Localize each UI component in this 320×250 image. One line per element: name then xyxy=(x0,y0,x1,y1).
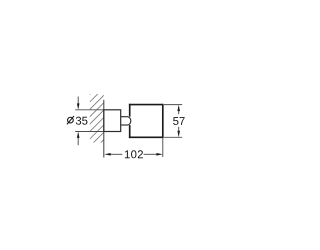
extension line top (57) xyxy=(164,104,182,106)
neck xyxy=(121,117,131,125)
extension line top (Ø35) xyxy=(75,109,104,111)
wall line xyxy=(103,100,105,158)
extension line right (102) below holder xyxy=(162,138,164,157)
wall plate (escutcheon) xyxy=(104,110,121,132)
arrow Ø35 top (pointing down) xyxy=(77,103,80,109)
label 35 xyxy=(76,117,88,125)
extension line bottom (Ø35) xyxy=(75,131,104,133)
wall hatching xyxy=(86,78,106,157)
label 57 xyxy=(173,117,185,125)
label 102 xyxy=(125,150,143,158)
holder (cup) xyxy=(129,104,163,138)
dim Ø35 vertical line bottom segment xyxy=(77,137,79,145)
arrow 102 right (pointing right) xyxy=(156,153,162,156)
arrow Ø35 bottom (pointing up) xyxy=(77,132,80,138)
dim 102 line right segment xyxy=(144,153,157,155)
arrow 57 top (pointing up) xyxy=(177,105,180,111)
dim 102 line left segment xyxy=(110,153,122,155)
dim 57 vertical line bottom segment xyxy=(178,127,180,132)
arrow 57 bottom (pointing down) xyxy=(177,131,180,137)
arrow 102 left (pointing left) xyxy=(104,153,110,156)
dim 57 vertical line top segment xyxy=(178,110,180,114)
label Ø glyph (circle + slash) xyxy=(67,116,74,124)
dim Ø35 vertical line top segment xyxy=(77,97,79,105)
extension line bottom (57) xyxy=(164,136,182,138)
